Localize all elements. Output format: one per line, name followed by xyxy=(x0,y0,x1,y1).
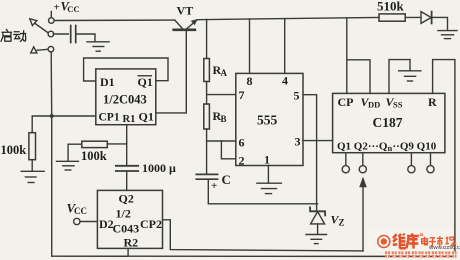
ground (VZ) xyxy=(306,234,327,236)
wire Q1bar to D1 feedback loop xyxy=(84,58,168,81)
flip-flop U1 box 1/2C043 xyxy=(96,69,156,125)
wire capacitor to ground xyxy=(76,34,95,41)
ground (100k left) xyxy=(21,170,44,172)
wire 1000u to U2 top pin xyxy=(126,171,128,190)
svg-text:D1: D1 xyxy=(100,75,115,89)
wire Q1 output stub xyxy=(345,153,347,166)
switch S1 middle contact xyxy=(48,31,54,37)
terminal VCC (D2) xyxy=(74,218,80,224)
terminal Q2 output xyxy=(359,166,366,173)
terminal Q1 output xyxy=(342,166,349,173)
wire 100k middle to ground xyxy=(68,144,82,160)
switch S1 lever xyxy=(35,24,48,33)
capacitor C1 (start) xyxy=(70,26,72,43)
diode VD triangle xyxy=(421,12,431,24)
svg-text:C187: C187 xyxy=(373,115,403,130)
svg-text:4: 4 xyxy=(282,74,288,88)
svg-text:WWW.DZSC.COM: WWW.DZSC.COM xyxy=(429,245,460,250)
svg-text:8: 8 xyxy=(247,74,253,88)
svg-text:1: 1 xyxy=(264,153,270,167)
arrow head at Q2 output xyxy=(359,177,367,188)
wire C bottom to VZ node xyxy=(208,179,317,204)
counter C187 box xyxy=(333,93,445,152)
wire Q10 output stub xyxy=(430,153,432,166)
ground (VSS) xyxy=(399,70,421,72)
wire pin2 jog xyxy=(221,141,235,159)
wire arrow shaft to Q2 output xyxy=(362,187,364,251)
wire pin7 xyxy=(207,94,236,96)
svg-text:SS: SS xyxy=(393,100,403,110)
switch S1 top contact xyxy=(49,18,55,24)
svg-text:+: + xyxy=(54,2,60,14)
svg-text:C: C xyxy=(222,172,231,187)
wire R2 pin to bottom rail xyxy=(127,248,129,256)
label 启动 (start) hand-drawn glyphs xyxy=(1,29,26,41)
svg-text:6: 6 xyxy=(239,136,245,150)
wire RB to C xyxy=(206,129,208,174)
wire top rail right (VT collector to 510k) xyxy=(197,17,379,19)
svg-text:Q1: Q1 xyxy=(138,75,153,89)
ground (100k middle) xyxy=(57,160,79,162)
ground (555 pin1) xyxy=(257,182,282,184)
svg-text:··Q9 Q10: ··Q9 Q10 xyxy=(393,141,437,153)
svg-text:DD: DD xyxy=(368,100,380,110)
logo 维库 text xyxy=(393,233,419,248)
svg-text:R1: R1 xyxy=(123,114,136,125)
node +VCC stub xyxy=(50,12,52,18)
wire left rail down xyxy=(50,52,53,256)
svg-text:Q1 Q2···Q: Q1 Q2···Q xyxy=(337,141,388,153)
resistor RB xyxy=(204,104,210,129)
svg-text:7: 7 xyxy=(239,88,245,102)
svg-text:B: B xyxy=(221,114,227,124)
wire middle contact to capacitor xyxy=(53,33,68,35)
wire 100k middle to 1000u node xyxy=(107,143,126,145)
wire R1 pin U1 to 1000u xyxy=(126,125,128,166)
svg-text:C043: C043 xyxy=(113,222,140,236)
wire to resistor 100k left xyxy=(32,116,52,133)
transistor VT base bar xyxy=(174,28,195,31)
overline of Q1bar xyxy=(138,75,153,77)
svg-text:1/2C043: 1/2C043 xyxy=(103,93,147,107)
svg-text:CP2: CP2 xyxy=(140,217,162,231)
svg-text:CC: CC xyxy=(67,4,79,14)
svg-text:100k: 100k xyxy=(81,149,107,163)
capacitor 1000u plates xyxy=(116,165,138,167)
logo bottom row text xyxy=(385,251,457,257)
wire R loop to bottom rail xyxy=(433,60,455,256)
svg-text:A: A xyxy=(221,68,228,78)
resistor R 100k left xyxy=(29,133,36,160)
resistor 100k middle xyxy=(82,141,108,147)
wire CP1 node xyxy=(52,115,96,117)
transistor VT collector xyxy=(187,20,197,28)
wire 510k to diode xyxy=(405,16,421,18)
flip-flop U2 box 1/2C043 xyxy=(97,190,162,248)
wire top rail left (switch to VT emitter) xyxy=(54,19,175,21)
wire Q9 output stub xyxy=(410,153,412,166)
svg-text:555: 555 xyxy=(257,113,278,128)
wire VCC terminal to D2 xyxy=(80,221,97,223)
diode VD cathode bar xyxy=(431,12,433,24)
svg-text:1/2: 1/2 xyxy=(116,207,131,221)
wire rail to RA xyxy=(206,20,208,59)
logo icon circle xyxy=(377,235,391,249)
switch S1 lower lever xyxy=(37,49,48,50)
svg-text:Z: Z xyxy=(339,218,345,228)
watermark logo background xyxy=(368,229,453,252)
wire diode to ground xyxy=(432,17,448,29)
zener diode VZ triangle xyxy=(311,212,325,224)
capacitor C plates xyxy=(196,173,217,175)
svg-text:100k: 100k xyxy=(1,143,27,157)
transistor VT collector arrow xyxy=(191,19,198,25)
wire RA to RB xyxy=(206,82,208,105)
wire VZ to ground xyxy=(317,224,319,234)
svg-text:R2: R2 xyxy=(124,236,139,250)
switch S1 lower arrow xyxy=(31,47,37,53)
svg-text:+: + xyxy=(211,180,217,192)
wire pin1 xyxy=(267,166,269,183)
wire CP to rail xyxy=(346,18,348,94)
ground (diode) xyxy=(438,30,457,32)
resistor 510k xyxy=(379,14,405,21)
wire pin3 to C187 xyxy=(303,140,333,142)
wire CP2 to rail A xyxy=(163,220,364,251)
svg-text:2: 2 xyxy=(239,154,245,168)
svg-text:510k: 510k xyxy=(377,0,405,14)
svg-text:D2: D2 xyxy=(99,217,114,231)
svg-text:CC: CC xyxy=(74,206,87,216)
zener diode VZ cathode bar xyxy=(310,207,325,215)
wire pin4 xyxy=(284,19,286,74)
resistor RA xyxy=(204,59,210,82)
wire VDD branch xyxy=(347,60,370,94)
wire bottom rail B xyxy=(52,255,456,257)
transistor VT emitter xyxy=(175,20,183,28)
logo TM mark xyxy=(420,234,422,236)
switch S1 lever arrow xyxy=(30,19,37,26)
switch S1 bottom contact xyxy=(48,46,54,52)
wire pin8 xyxy=(249,19,251,74)
wire Q2 output stub xyxy=(362,153,364,166)
svg-text:1000 μ: 1000 μ xyxy=(142,161,176,175)
wire Q1 pin to VT base xyxy=(156,31,187,113)
svg-text:VT: VT xyxy=(177,4,194,18)
wire 100k left to ground xyxy=(31,160,33,171)
svg-text:3: 3 xyxy=(295,135,301,149)
svg-text:Q2: Q2 xyxy=(119,192,134,206)
junction left rail / CP1 xyxy=(50,114,54,118)
svg-text:CP: CP xyxy=(338,95,354,109)
wire pin5 to VZ xyxy=(303,95,317,212)
terminal Q9 output xyxy=(408,166,415,173)
timer 555 box xyxy=(236,73,303,165)
ground (start capacitor) xyxy=(87,41,109,43)
terminal Q10 output xyxy=(427,166,434,173)
svg-text:CP1: CP1 xyxy=(99,112,120,124)
logo 电子市场网 text xyxy=(422,236,456,247)
svg-text:R: R xyxy=(428,95,437,109)
wire VSS to ground xyxy=(389,60,410,94)
wire pin6 xyxy=(207,140,236,142)
svg-text:5: 5 xyxy=(294,89,300,103)
svg-text:Q1: Q1 xyxy=(139,110,154,124)
